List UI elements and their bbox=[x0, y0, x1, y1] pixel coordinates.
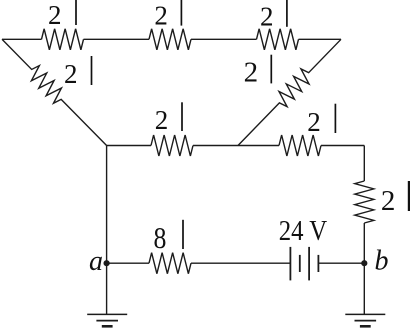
svg-text:b: b bbox=[375, 245, 389, 276]
svg-text:8: 8 bbox=[154, 220, 167, 255]
svg-text:2: 2 bbox=[48, 0, 62, 30]
resistor 8ohm bottom bbox=[149, 253, 191, 274]
svg-text:2: 2 bbox=[154, 0, 168, 30]
ground right bbox=[345, 314, 385, 326]
wire top between R2 R3 bbox=[191, 38, 257, 40]
svg-text:2: 2 bbox=[155, 105, 169, 135]
svg-text:2: 2 bbox=[307, 107, 321, 137]
wire a to ground bbox=[106, 263, 108, 314]
wire top between R1 R2 bbox=[84, 38, 150, 40]
resistor 2ohm top-1 bbox=[42, 29, 84, 50]
wire middle between bbox=[193, 145, 279, 147]
resistor 2ohm middle-left bbox=[151, 135, 193, 156]
battery plate long 2 bbox=[308, 247, 310, 281]
resistor 2ohm top-2 bbox=[149, 29, 191, 50]
battery plate long 1 bbox=[289, 247, 291, 281]
svg-text:2: 2 bbox=[381, 185, 396, 217]
wire bottom a to R8 bbox=[107, 262, 149, 264]
battery plate short 1 bbox=[299, 255, 301, 272]
wire middle right segment bbox=[321, 145, 364, 147]
resistor 2ohm middle-right bbox=[279, 135, 321, 156]
svg-text:24 V: 24 V bbox=[279, 215, 327, 247]
wire battery to b bbox=[318, 262, 364, 264]
svg-text:2: 2 bbox=[244, 57, 259, 89]
svg-text:2: 2 bbox=[260, 2, 274, 32]
resistor 2ohm left diagonal bbox=[2, 39, 107, 145]
wire b to ground bbox=[363, 263, 365, 314]
wire left vertical bbox=[106, 146, 108, 264]
wire right vertical upper bbox=[363, 146, 365, 182]
svg-text:2: 2 bbox=[64, 59, 78, 89]
wire right vertical lower bbox=[363, 223, 365, 263]
wire top-left segment bbox=[2, 38, 42, 40]
node a junction dot bbox=[104, 260, 110, 266]
battery plate short 2 bbox=[317, 255, 319, 272]
wire bottom R8 to battery bbox=[191, 262, 290, 264]
resistor 2ohm right diagonal bbox=[238, 39, 341, 145]
resistor 2ohm right vertical bbox=[355, 181, 374, 223]
wire middle left segment bbox=[107, 145, 151, 147]
node b junction dot bbox=[361, 260, 367, 266]
wire top-right segment bbox=[299, 38, 342, 40]
resistor 2ohm top-3 bbox=[257, 29, 299, 50]
svg-text:a: a bbox=[89, 246, 103, 277]
ground left bbox=[87, 314, 127, 326]
